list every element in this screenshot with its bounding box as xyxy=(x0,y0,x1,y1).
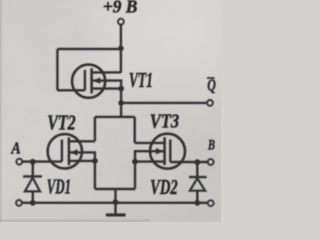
svg-text:VT2: VT2 xyxy=(47,111,76,135)
VT3 drain stub xyxy=(135,142,165,144)
wire: +9V terminal down to VT1 drain corner xyxy=(120,25,122,73)
diode VD1 xyxy=(23,176,42,191)
VT2 channel bar xyxy=(68,137,71,165)
VD2 anode triangle xyxy=(190,178,205,190)
node: A / VD1 junction xyxy=(30,159,36,165)
VT3 substrate arrow xyxy=(156,148,163,154)
svg-text:B: B xyxy=(207,137,215,153)
bottom edge smudge xyxy=(0,219,150,222)
wire: VT2 source down xyxy=(94,161,96,189)
node: B / VD2 junction xyxy=(194,159,200,165)
VT1 drain stub xyxy=(92,71,122,73)
ground xyxy=(106,203,126,217)
VT3 gate bar xyxy=(169,140,171,163)
transistor VT1 (MOSFET, diode-connected load) xyxy=(72,65,121,98)
wire: gate loop left vertical xyxy=(56,49,58,90)
wire: drain rail left vertical xyxy=(94,117,96,141)
VT1 channel bar xyxy=(90,68,93,93)
wire: center tap down to ground rail xyxy=(114,189,116,203)
node: VD2 bottom junction xyxy=(194,200,200,206)
wire: VD1 lower lead xyxy=(32,191,34,202)
transistor VT2 (left switch) xyxy=(48,134,95,168)
node: ground junction xyxy=(113,199,119,205)
VT1 source stub xyxy=(92,87,122,89)
VT1 body circle xyxy=(72,65,105,98)
bottom-left terminal xyxy=(16,200,22,206)
transistor VT3 (right switch, mirrored) xyxy=(135,134,185,169)
wire: source rail bottom horizontal xyxy=(95,188,135,190)
wire: VT3 source down xyxy=(134,162,136,189)
node A terminal xyxy=(16,159,22,165)
wire: VD1 upper lead xyxy=(32,162,34,177)
VD1 anode triangle xyxy=(25,178,40,192)
diode VD2 xyxy=(189,177,207,191)
svg-text:+9 В: +9 В xyxy=(103,0,138,17)
node: VD1 bottom junction xyxy=(30,200,36,206)
svg-text:VT3: VT3 xyxy=(150,111,179,133)
VT1 substrate arrow xyxy=(93,77,100,83)
VT2 source stub xyxy=(69,160,95,162)
paper background xyxy=(0,0,221,222)
VT1 substrate stub with bend xyxy=(92,81,122,89)
VT2 substrate stub with bend xyxy=(69,152,95,161)
node: VT2 source junction xyxy=(92,158,98,164)
wire: output to Q-bar terminal xyxy=(121,102,207,104)
VT3 substrate stub with bend xyxy=(135,151,165,161)
wire: drain rail top horizontal xyxy=(95,116,135,118)
VT2 drain stub xyxy=(69,140,95,142)
wire: VD2 lower lead xyxy=(196,191,198,203)
wire: B to VT3 gate xyxy=(170,161,207,163)
node: VT3 source junction xyxy=(132,159,138,165)
wire: VT1 gate lead xyxy=(57,89,85,91)
terminal Q-bar xyxy=(207,100,213,106)
VT2 substrate arrow xyxy=(70,149,77,155)
wire: gate loop top horizontal xyxy=(57,48,121,50)
svg-text:VT1: VT1 xyxy=(129,68,153,92)
wire: bottom rail xyxy=(22,202,208,204)
wire: VT1 source down to inverter rail xyxy=(120,89,122,117)
VT3 channel bar xyxy=(163,137,166,165)
VT3 body circle xyxy=(150,134,185,169)
left edge shadow xyxy=(0,0,2,222)
node: output junction xyxy=(118,100,124,106)
VD2 cathode bar xyxy=(189,176,207,178)
label Q-bar overline xyxy=(207,77,215,79)
wire: VD2 upper lead xyxy=(196,162,198,177)
svg-text:VD2: VD2 xyxy=(150,175,178,199)
node: junction of +9V rail and VT1 gate loop xyxy=(118,46,124,52)
VT2 body circle xyxy=(48,134,82,168)
VD1 cathode bar xyxy=(23,175,42,177)
VT3 source stub xyxy=(135,160,165,162)
node B terminal xyxy=(208,159,214,165)
svg-text:A: A xyxy=(11,138,21,157)
node: VT1 substrate/source junction xyxy=(118,86,124,92)
wire: drain rail right vertical xyxy=(133,117,135,143)
VT1 gate bar xyxy=(84,70,86,91)
bottom-right terminal xyxy=(208,200,214,206)
svg-text:VD1: VD1 xyxy=(47,174,71,198)
VT2 gate bar xyxy=(61,140,63,162)
wire: A to VT2 gate xyxy=(22,160,62,162)
power terminal +9V xyxy=(118,19,124,25)
